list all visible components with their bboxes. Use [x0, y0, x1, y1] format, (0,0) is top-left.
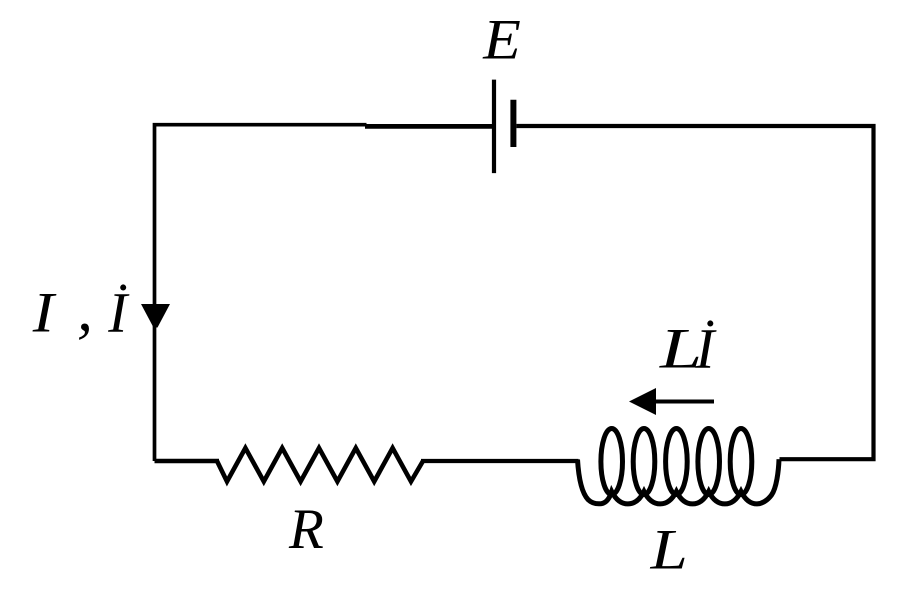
svg-text:İ: İ: [107, 282, 130, 345]
svg-text:L: L: [649, 519, 687, 582]
svg-text:I: I: [32, 282, 58, 345]
svg-text:E: E: [482, 9, 521, 72]
svg-text:R: R: [288, 498, 324, 561]
svg-text:İ: İ: [694, 318, 717, 381]
svg-text:,: ,: [77, 273, 93, 344]
